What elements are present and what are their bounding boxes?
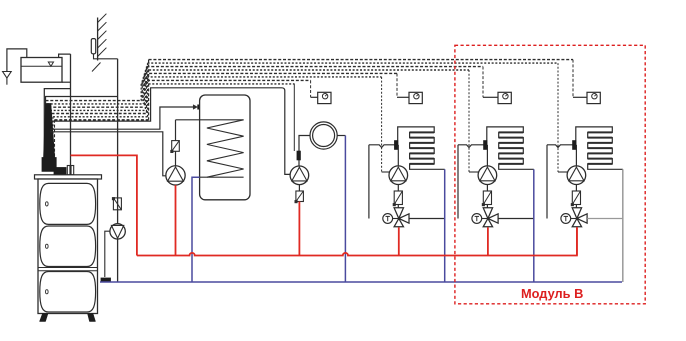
- boiler door 2: [40, 226, 96, 267]
- wire stub into thermostat RT3: [483, 96, 498, 98]
- wire bundle lower row 7: [46, 100, 143, 102]
- valve actuator T circuit 2: [472, 214, 482, 224]
- pipe pump-check circuit 3: [575, 185, 577, 192]
- tank immersion sensor: [198, 105, 211, 109]
- wire bundle left descender 7: [45, 101, 47, 168]
- expansion riser pipe: [70, 54, 72, 175]
- loading pump P2 (flow up): [166, 166, 185, 185]
- safety riser pipe: [117, 59, 119, 282]
- wire bundle lower row 6: [47, 103, 143, 105]
- boiler controller box: [54, 168, 66, 175]
- wire bundle nest riser 3: [145, 67, 147, 114]
- wire bundle upper row 5: [144, 72, 397, 74]
- bypass pipe: [546, 145, 548, 219]
- 3-way mixing valve circuit 2: [483, 208, 498, 227]
- blue return main: [100, 281, 622, 283]
- control wire drop to thermostat RT4: [572, 60, 574, 98]
- boiler supply red pipe: [71, 155, 137, 255]
- circ supply (red): [298, 202, 300, 256]
- circ return (blue): [344, 136, 346, 283]
- control wire drop to circuit pump at x=389.5: [381, 77, 383, 172]
- supply pipe with wire jump: [547, 145, 576, 148]
- boiler top plate: [35, 175, 102, 179]
- wire bundle nest riser 6: [142, 77, 144, 104]
- control wire drop to circuit pump at x=567.6: [557, 63, 559, 172]
- connector pipe: [69, 166, 71, 175]
- valve actuator T circuit 3: [561, 214, 571, 224]
- boiler chimney: [42, 104, 56, 172]
- safety valve on wall: [91, 39, 95, 54]
- outdoor sensor wire to controller: [46, 97, 118, 169]
- radiator R2: [487, 127, 534, 169]
- drain funnel: [3, 72, 12, 79]
- boiler door 3: [40, 272, 96, 313]
- room thermostat RT1: [318, 92, 331, 103]
- wall hatch below wire: [92, 63, 101, 72]
- supply pipe with wire jump: [369, 145, 398, 148]
- module B border: [455, 45, 645, 304]
- check valve K2: [170, 141, 179, 153]
- expansion tank: [21, 58, 62, 83]
- wire bundle lower row 4: [50, 109, 145, 111]
- tank sensor arrow: [193, 105, 197, 110]
- tank top stub to riser: [59, 54, 71, 57]
- wire bundle nest riser 5: [143, 73, 145, 107]
- wire stub into pump at x=478.6: [469, 171, 479, 173]
- relief wire elbow: [94, 54, 118, 59]
- wire bundle nest riser 8: [140, 84, 142, 101]
- valve supply (red) circuit 2: [487, 227, 489, 255]
- supply sensor circuit 3: [573, 141, 577, 150]
- room thermostat RT3: [498, 92, 511, 103]
- check valve K1 (boiler): [112, 197, 122, 210]
- red supply main: [137, 227, 577, 255]
- module B label: [521, 286, 583, 301]
- pump riser circuit 2: [486, 145, 488, 166]
- pump riser circuit 1: [397, 145, 399, 166]
- supply sensor circuit 2: [484, 141, 488, 150]
- valve-return link circuit 1: [409, 218, 445, 220]
- wire bundle left descender 1: [54, 120, 56, 168]
- bypass pipe: [368, 145, 370, 219]
- valve-return link circuit 2: [498, 218, 534, 220]
- loading pipe mid: [175, 151, 177, 166]
- valve-return link circuit 3: [587, 218, 623, 220]
- water level line: [21, 65, 62, 67]
- return riser circuit 3: [622, 169, 624, 282]
- check valve circuit 1: [393, 191, 403, 206]
- return riser circuit 1: [444, 169, 446, 282]
- pump P4 (flow up): [389, 166, 408, 185]
- blue main end cap: [101, 278, 111, 282]
- actuator stub circuit 3: [571, 218, 577, 220]
- wire bundle left descender 5: [48, 107, 50, 168]
- valve supply (red) circuit 1: [398, 227, 400, 255]
- wire stub into pump at x=389.5: [382, 171, 390, 173]
- wire bundle lower row 1: [55, 119, 149, 121]
- wire bundle left descender 6: [46, 104, 48, 168]
- boiler top connector stub: [67, 166, 73, 175]
- wire stub into pump at x=567.6: [558, 171, 568, 173]
- wire bundle upper row 2: [148, 62, 558, 64]
- room thermostat RT4: [587, 92, 600, 103]
- control wire drop to thermostat RT3: [482, 67, 484, 98]
- supply pipe with wire jump: [458, 145, 487, 148]
- actuator stub circuit 1: [393, 218, 399, 220]
- pump P5 (flow up): [478, 166, 497, 185]
- coil outlet line: [200, 176, 244, 178]
- pipe check-valve circuit 3: [575, 205, 577, 208]
- wire bundle nest riser 7: [141, 80, 143, 100]
- coil return (blue): [192, 177, 200, 282]
- expansion tank overflow pipe: [7, 49, 27, 71]
- radiator R2 fins: [499, 132, 524, 164]
- wire stub into thermostat RT1: [311, 96, 318, 98]
- control wire drop to thermostat RT2: [396, 73, 398, 97]
- wire stub into thermostat RT2: [397, 96, 409, 98]
- circ riser pipe: [299, 136, 310, 166]
- wire bundle upper row 1: [149, 59, 573, 61]
- boiler band line 2: [38, 270, 98, 272]
- pipe check-valve circuit 2: [486, 205, 488, 208]
- controller wire to circ pump: [50, 88, 290, 175]
- DHW tank: [200, 95, 250, 200]
- check valve circuit 2: [482, 191, 492, 206]
- boiler left leg: [40, 314, 49, 322]
- circ sensor wire: [293, 84, 295, 152]
- valve actuator T circuit 1: [383, 214, 393, 224]
- circ outlet stub: [337, 135, 345, 137]
- pipe check-valve circuit 1: [397, 205, 399, 208]
- boiler door keyhole 2: [46, 244, 49, 248]
- pipe pump-check circuit 2: [486, 185, 488, 192]
- wire stub into thermostat RT4: [573, 96, 587, 98]
- tank bottom stub to riser: [62, 81, 71, 83]
- boiler door keyhole 3: [46, 290, 49, 294]
- boiler band line 1: [38, 267, 98, 269]
- wire bundle upper row 3: [146, 66, 483, 68]
- coil inlet pipe: [176, 119, 244, 121]
- boiler door 1: [40, 183, 96, 224]
- wall hatching: [98, 14, 107, 57]
- controller wire to tank sensor: [50, 107, 193, 129]
- boiler right leg: [88, 314, 96, 322]
- circ pump P3 (flow up): [290, 166, 309, 185]
- bypass pipe: [457, 145, 459, 219]
- wire bundle left descender 2: [52, 117, 54, 168]
- wire bundle left descender 4: [49, 110, 51, 168]
- wire bundle upper row 6: [143, 76, 381, 78]
- check valve K3: [295, 191, 304, 203]
- radiator R1: [398, 127, 445, 169]
- check valve circuit 3: [571, 191, 581, 206]
- radiator R1 fins: [410, 132, 435, 164]
- boiler body: [38, 179, 98, 314]
- 3-way mixing valve circuit 3: [572, 208, 587, 227]
- boiler door keyhole 1: [46, 202, 49, 206]
- return riser circuit 2: [533, 169, 535, 282]
- controller wire to loading pump: [50, 132, 166, 176]
- wire bundle left descender 3: [51, 114, 53, 169]
- pump riser circuit 3: [575, 145, 577, 166]
- supply sensor circuit 1: [394, 141, 398, 150]
- boiler expansion connection: [44, 89, 70, 168]
- pipe pump-check circuit 1: [397, 185, 399, 192]
- circ supply sensor: [297, 151, 301, 160]
- wire bundle upper row 7: [142, 79, 310, 81]
- wire bundle upper row 8: [141, 83, 294, 85]
- 3-way mixing valve circuit 1: [394, 208, 409, 227]
- boiler pump P1 (flow down): [110, 224, 125, 239]
- wire bundle lower row 5: [49, 106, 145, 108]
- wire bundle nest riser 2: [147, 63, 149, 117]
- wire bundle nest riser 1: [148, 60, 150, 120]
- svg-text:Модуль В: Модуль В: [521, 286, 583, 301]
- wire bundle nest riser 4: [144, 70, 146, 110]
- radiator R3: [576, 127, 623, 169]
- heating coil: [207, 120, 244, 177]
- boiler return wire/pipe: [105, 231, 110, 277]
- actuator stub circuit 2: [482, 218, 488, 220]
- wire bundle lower row 3: [52, 113, 147, 115]
- room thermostat RT2: [409, 92, 422, 103]
- circulation circle: [310, 122, 337, 149]
- wire bundle upper row 4: [145, 69, 469, 71]
- circ pipe pump-valve: [298, 185, 300, 191]
- pump P6 (flow up): [567, 166, 586, 185]
- control wire drop to circuit pump at x=478.6: [468, 70, 470, 172]
- valve supply (red) circuit 3: [576, 227, 578, 255]
- drain funnel stem: [6, 78, 8, 85]
- control wire drop to thermostat RT1: [310, 80, 312, 97]
- water level marker: [48, 62, 53, 66]
- radiator R3 fins: [588, 132, 613, 164]
- wire bundle lower row 2: [53, 116, 148, 118]
- loading pipe upper: [175, 120, 177, 141]
- loading pump supply (red): [175, 185, 177, 255]
- wall (hatched): [97, 18, 99, 61]
